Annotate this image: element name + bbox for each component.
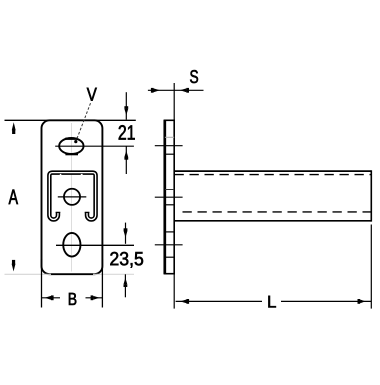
side view: inside tick (top slot top, faint) [165, 136, 174, 138]
side view: inside tick (circle top) [165, 189, 174, 191]
dimension S: label [190, 70, 198, 83]
dimension 21: label [119, 125, 135, 139]
side view: inside tick (bottom slot bottom) [165, 256, 174, 258]
front view: circle centerline [58, 196, 87, 198]
side view: inside tick (top slot bottom) [165, 153, 174, 155]
dimension S: extension line [173, 83, 175, 120]
side view: plate left face (thicker) [163, 120, 166, 275]
dimension S: left arrow [151, 88, 160, 93]
dimension A: top arrow [12, 122, 16, 134]
leader line from V to top slot [76, 103, 90, 140]
side view: crossing tick (circle centerline) [155, 196, 183, 198]
side view: inside tick (bottom slot top) [165, 231, 174, 233]
side view: inside tick (circle bottom) [165, 204, 174, 206]
side view: rail bottom edge [174, 220, 371, 222]
label V [87, 88, 97, 101]
front view: center hole circle [64, 189, 80, 205]
dimension S: dimension line [148, 89, 204, 91]
bottom edge faint extension (right) [93, 273, 134, 275]
dimension L: label [268, 296, 276, 308]
side view: plate body [165, 120, 174, 273]
front view: faint vertical centerline of plate [71, 123, 73, 272]
side view: crossing tick (top slot centerline) [155, 145, 183, 147]
front view: mounting plate outline [42, 120, 103, 274]
dimension 23,5: lower arrow with shaft [124, 274, 128, 297]
front view: top slot centerline [55, 145, 134, 147]
dimension B: label [69, 293, 76, 305]
front view: strut channel cross-section (double wall) [49, 173, 95, 220]
side view: rail top edge [174, 170, 371, 172]
dimension L: right arrow [358, 299, 366, 304]
dimension L: left extension line [173, 274, 175, 309]
dimension A: label [9, 190, 18, 205]
front view: bottom slot [63, 233, 80, 257]
dimension 23,5: label [110, 252, 143, 268]
dimension L: dimension line [176, 300, 262, 302]
bottom edge faint extension (left) [5, 273, 52, 275]
front view: top slot (hole V) [59, 138, 83, 154]
dimension S: right arrow [180, 88, 189, 93]
dimension B: dimension line + arrows [42, 295, 103, 300]
top edge extension line (right, for 21) [93, 119, 136, 121]
dimension B: extension lines [41, 259, 43, 308]
dimension L: left arrow [180, 299, 189, 304]
dimension A: bottom arrow [12, 260, 16, 272]
side view: rail right end cap [370, 170, 372, 221]
side view: rail hidden line top (dashed) [175, 174, 371, 176]
dimension L: right extension line [370, 225, 372, 309]
side view: rail hidden line bottom (dashed) [183, 211, 371, 213]
side view: crossing tick (bottom slot centerline) [155, 244, 183, 246]
dimension 23,5: upper arrow with shaft [124, 223, 128, 244]
top edge extension line (left, for A) [5, 119, 52, 121]
dimension 21: lower arrow with shaft [124, 146, 128, 174]
dimension 21: upper arrow with shaft [124, 92, 128, 119]
front view: bottom slot centerline [56, 244, 134, 246]
